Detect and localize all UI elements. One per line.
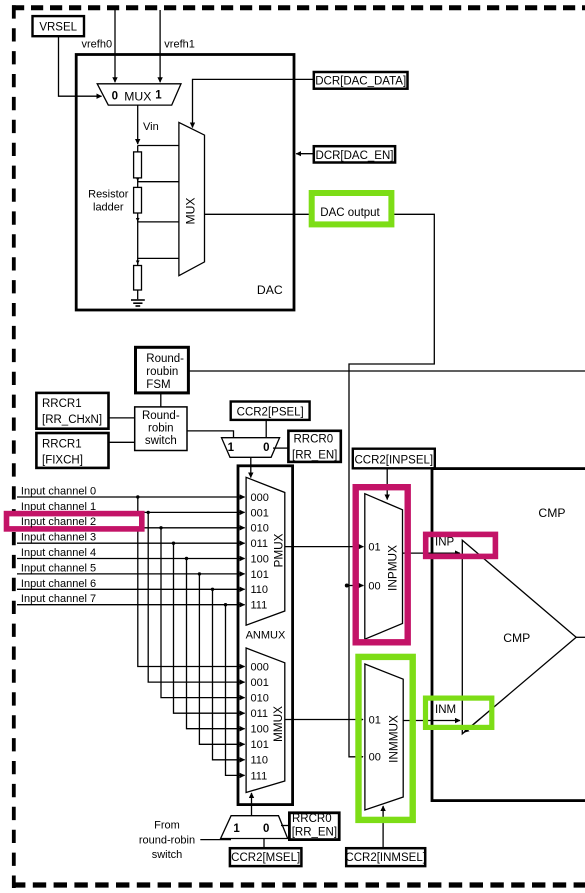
- wire INMMUX to INM: [403, 720, 460, 722]
- wire channel 4 to MMUX: [187, 559, 245, 729]
- wire input channel 5: [17, 573, 245, 575]
- svg-text:01: 01: [368, 541, 380, 553]
- node junction DAC output / INPMUX 00: [345, 584, 349, 588]
- box Round-roubin FSM: [136, 347, 189, 393]
- LAYER: channels and muxes: [200, 449, 585, 866]
- box RRCR0 [RR_EN] top: [288, 431, 340, 462]
- wire CCR2[INMSEL] to INMMUX: [382, 806, 384, 848]
- mux reference select (0 MUX 1): [97, 84, 181, 105]
- wire input channel 1: [17, 511, 245, 513]
- svg-text:robin: robin: [148, 423, 174, 435]
- wire input channel 3: [17, 542, 245, 544]
- svg-text:INPMUX: INPMUX: [386, 545, 400, 591]
- svg-text:INMMUX: INMMUX: [386, 715, 400, 763]
- highlight INM (green): [426, 698, 492, 727]
- wire resistor ladder vertical: [137, 146, 139, 300]
- node channel 4 junction: [185, 557, 188, 560]
- svg-text:011: 011: [251, 538, 269, 550]
- wire vrefh1: [159, 10, 161, 82]
- svg-text:[RR_EN]: [RR_EN]: [292, 450, 337, 462]
- mux INMMUX: [365, 664, 403, 810]
- svg-text:CCR2[MSEL]: CCR2[MSEL]: [231, 852, 300, 864]
- wire ladder tap 2: [138, 181, 179, 183]
- svg-text:FSM: FSM: [146, 379, 170, 391]
- svg-text:1: 1: [228, 442, 235, 454]
- label VRSEL box: [33, 16, 85, 36]
- highlight INP (magenta): [426, 534, 496, 556]
- svg-text:001: 001: [251, 677, 269, 689]
- svg-text:Vin: Vin: [143, 121, 159, 133]
- page dashed border left: [12, 5, 16, 888]
- resistor R2: [134, 187, 142, 213]
- svg-text:101: 101: [251, 569, 269, 581]
- wire from round-robin switch to msel mux: [200, 839, 231, 841]
- wire input channel 4: [17, 558, 245, 560]
- svg-text:001: 001: [251, 507, 269, 519]
- wire channel 5 to MMUX: [199, 574, 244, 744]
- svg-text:vrefh0: vrefh0: [82, 39, 113, 51]
- svg-text:0: 0: [263, 823, 269, 835]
- svg-text:CCR2[PSEL]: CCR2[PSEL]: [237, 406, 304, 418]
- wire input channel 2: [17, 527, 245, 529]
- wire input channel 6: [17, 588, 245, 590]
- LAYER: highlights: [7, 193, 496, 820]
- svg-text:0: 0: [112, 90, 118, 102]
- box ANMUX: [238, 466, 293, 805]
- node channel 0 junction: [136, 495, 139, 498]
- svg-text:110: 110: [251, 584, 269, 596]
- mux PMUX: [246, 477, 285, 625]
- wire channel 0 to MMUX: [138, 497, 245, 667]
- resistor R3: [134, 266, 142, 291]
- mux DAC ladder MUX: [179, 122, 205, 275]
- svg-text:switch: switch: [145, 435, 177, 447]
- wire msel mux to CCR2[MSEL]: [263, 839, 265, 849]
- svg-text:Round-: Round-: [146, 353, 184, 365]
- node channel 1 junction: [147, 511, 150, 514]
- svg-text:Round-: Round-: [142, 410, 180, 422]
- svg-text:111: 111: [251, 770, 268, 782]
- wire channel 3 to MMUX: [174, 543, 245, 713]
- svg-text:111: 111: [251, 600, 268, 612]
- wire channel 7 to MMUX: [226, 605, 245, 776]
- svg-text:DAC output: DAC output: [320, 207, 380, 219]
- wire CCR2[PSEL] to psel mux: [265, 420, 267, 438]
- svg-text:CMP: CMP: [503, 631, 530, 645]
- box RRCR1 [FIXCH]: [36, 433, 108, 468]
- small arrow above R3: [137, 260, 139, 264]
- mux PSEL (1 0): [222, 438, 280, 458]
- svg-text:010: 010: [251, 523, 269, 535]
- svg-text:Input channel 2: Input channel 2: [21, 516, 96, 528]
- wire msel mux to RRCR0 bottom: [281, 825, 290, 827]
- op-amp CMP triangle: [462, 540, 576, 734]
- box RRCR0 [RR_EN] bottom: [289, 813, 339, 840]
- svg-text:000: 000: [251, 492, 269, 504]
- svg-text:011: 011: [251, 708, 269, 720]
- wire RRCR1b to switch: [109, 441, 135, 443]
- svg-text:MMUX: MMUX: [271, 706, 285, 742]
- svg-text:INP: INP: [435, 537, 455, 549]
- wire FSM output: [188, 370, 585, 372]
- svg-text:1: 1: [233, 823, 240, 835]
- svg-text:00: 00: [369, 752, 381, 764]
- wire ladder tap 4: [138, 257, 179, 259]
- wire RRCR1a to switch: [109, 417, 135, 419]
- svg-text:1: 1: [155, 90, 162, 102]
- wire switch to psel mux: [187, 431, 234, 438]
- wire input channel 0: [17, 496, 245, 498]
- mux MSEL (1 0): [221, 816, 288, 839]
- svg-text:Input channel 5: Input channel 5: [21, 562, 96, 574]
- resistor R1: [134, 152, 142, 178]
- LAYER: channel wires: [17, 495, 245, 775]
- node channel 7 junction: [224, 603, 227, 606]
- ground: [131, 299, 145, 301]
- wire input channel 7: [17, 604, 245, 606]
- svg-text:RRCR0: RRCR0: [292, 813, 332, 825]
- svg-text:Input channel 6: Input channel 6: [21, 578, 96, 590]
- wire ladder tap 1: [138, 145, 179, 147]
- wire VRSEL to reference mux: [59, 36, 102, 96]
- box CMP: [432, 469, 585, 801]
- svg-text:CCR2[INMSEL]: CCR2[INMSEL]: [345, 852, 426, 864]
- wire FSM to switch: [160, 393, 162, 407]
- svg-text:010: 010: [251, 693, 269, 705]
- small arrow above R2: [137, 177, 139, 181]
- mux INPMUX: [365, 494, 403, 640]
- svg-text:Input channel 3: Input channel 3: [21, 532, 96, 544]
- svg-text:VRSEL: VRSEL: [39, 22, 77, 34]
- svg-text:Input channel 7: Input channel 7: [21, 593, 96, 605]
- svg-text:CCR2[INPSEL]: CCR2[INPSEL]: [354, 454, 433, 466]
- svg-text:roubin: roubin: [146, 366, 178, 378]
- wire channel 6 to MMUX: [213, 589, 245, 760]
- svg-text:01: 01: [369, 714, 381, 726]
- mux MMUX: [246, 648, 285, 793]
- wire branch to INPMUX 00: [349, 585, 363, 587]
- svg-text:Input channel 4: Input channel 4: [21, 547, 96, 559]
- wire DAC output: [205, 214, 435, 757]
- svg-text:MUX: MUX: [184, 197, 198, 224]
- svg-text:100: 100: [251, 553, 269, 565]
- wire CCR2[INPSEL] to INPMUX: [386, 468, 388, 499]
- wire channel 2 to MMUX: [161, 528, 245, 698]
- svg-text:CMP: CMP: [538, 506, 565, 520]
- small arrow below R2: [137, 218, 139, 222]
- box CCR2[MSEL]: [230, 848, 302, 866]
- highlight INPMUX (magenta): [356, 487, 408, 642]
- svg-text:ANMUX: ANMUX: [246, 630, 286, 642]
- svg-text:From: From: [154, 820, 180, 832]
- svg-text:Resistor: Resistor: [88, 189, 129, 201]
- box CCR2[INMSEL]: [346, 848, 425, 866]
- wire vrefh0: [114, 10, 116, 82]
- box Round-robin switch: [135, 407, 187, 451]
- svg-text:DCR[DAC_DATA]: DCR[DAC_DATA]: [315, 76, 406, 88]
- wire CMP output: [576, 636, 585, 638]
- page dashed border bottom: [12, 882, 585, 887]
- wire PMUX output: [285, 546, 364, 548]
- wire MMUX output: [285, 719, 363, 721]
- svg-text:[RR_EN]: [RR_EN]: [292, 826, 337, 838]
- svg-text:[FIXCH]: [FIXCH]: [42, 455, 83, 467]
- svg-text:[RR_CHxN]: [RR_CHxN]: [42, 414, 102, 426]
- wire channel 1 to MMUX: [148, 512, 244, 682]
- svg-text:RRCR1: RRCR1: [42, 439, 82, 451]
- svg-text:MUX: MUX: [124, 90, 151, 104]
- box RRCR1 [RR_CHxN]: [36, 393, 108, 429]
- svg-text:00: 00: [368, 580, 380, 592]
- svg-text:PMUX: PMUX: [271, 533, 285, 567]
- wire msel mux to MMUX: [251, 793, 253, 816]
- svg-text:DCR[DAC_EN]: DCR[DAC_EN]: [316, 150, 394, 162]
- highlight input channel 2 (magenta): [7, 514, 142, 529]
- box DAC output (green, opaque): [312, 193, 392, 224]
- wire Vin: [137, 105, 139, 144]
- svg-text:DAC: DAC: [257, 283, 283, 297]
- svg-text:INM: INM: [435, 704, 456, 716]
- node channel 6 junction: [211, 588, 214, 591]
- svg-text:RRCR0: RRCR0: [294, 433, 334, 445]
- node channel 3 junction: [172, 542, 175, 545]
- svg-text:110: 110: [251, 755, 269, 767]
- wire DCR[DAC_DATA] to MUX: [193, 79, 314, 127]
- highlight INMMUX (green): [359, 657, 413, 820]
- wire psel mux to RRCR0: [273, 447, 288, 449]
- arrowhead at triangle lower vertex: [464, 719, 480, 733]
- svg-text:round-robin: round-robin: [139, 835, 195, 847]
- svg-text:switch: switch: [152, 849, 183, 861]
- svg-text:100: 100: [251, 724, 269, 736]
- node channel 2 junction: [159, 526, 162, 529]
- node channel 5 junction: [198, 572, 201, 575]
- svg-text:101: 101: [251, 739, 269, 751]
- svg-text:vrefh1: vrefh1: [164, 39, 195, 51]
- wire psel mux to PMUX: [250, 457, 252, 477]
- svg-text:RRCR1: RRCR1: [42, 398, 82, 410]
- box CCR2[PSEL]: [231, 402, 310, 420]
- svg-text:000: 000: [251, 661, 269, 673]
- box DCR[DAC_DATA]: [314, 72, 408, 89]
- wire INPMUX to INP: [403, 552, 461, 554]
- box DCR[DAC_EN]: [314, 146, 395, 162]
- box CCR2[INPSEL]: [353, 449, 435, 469]
- svg-text:0: 0: [263, 442, 269, 454]
- page dashed border top: [12, 5, 585, 10]
- svg-text:ladder: ladder: [93, 202, 124, 214]
- box DAC: [76, 55, 294, 311]
- wire DCR[DAC_EN] arrow into DAC: [296, 153, 314, 155]
- svg-text:Input channel 0: Input channel 0: [21, 485, 96, 497]
- wire ladder tap 3: [138, 221, 179, 223]
